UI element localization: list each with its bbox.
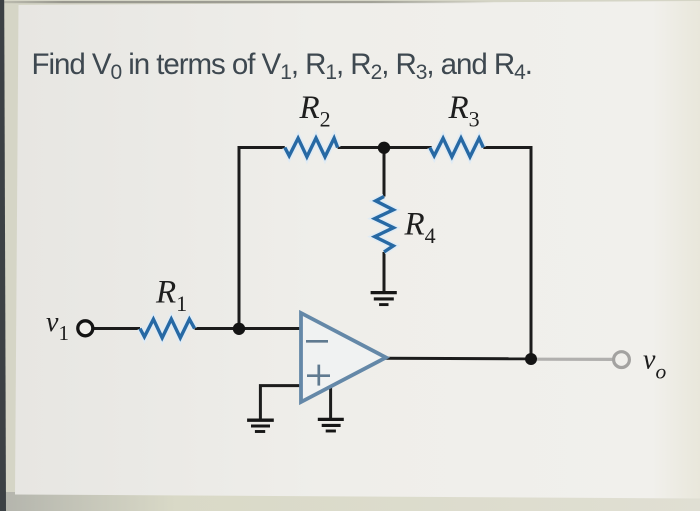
node A junction dot xyxy=(233,323,245,335)
wire: R1 to op-amp minus input (through node A) xyxy=(195,327,301,330)
resistor R2 xyxy=(285,138,338,157)
resistor R4 halo (vertical) xyxy=(375,197,394,253)
resistor R4 (vertical) xyxy=(375,197,394,253)
terminal vo open circle xyxy=(614,352,630,368)
ground G1 under R4 xyxy=(371,293,397,305)
ground G2 below-left of op-amp xyxy=(247,420,274,431)
wire: v1 lead to R1 xyxy=(93,327,141,330)
wire: left riser node A up to top-left corner xyxy=(239,148,285,329)
node C junction dot xyxy=(525,353,537,365)
op-amp minus mark xyxy=(306,340,328,343)
wire: plus input left then down to ground G2 xyxy=(260,386,300,419)
resistor R3 xyxy=(430,138,484,157)
op-amp plus mark xyxy=(307,365,330,386)
wire: R4 bottom to ground G1 xyxy=(383,252,386,291)
bottom gray band xyxy=(0,492,700,511)
wire: below op-amp down to ground G3 xyxy=(329,387,332,419)
wire: op-amp output to node C xyxy=(385,357,531,361)
resistor R3 halo xyxy=(430,138,484,157)
node B junction dot xyxy=(378,142,390,154)
resistor R2 halo xyxy=(285,138,338,157)
terminal v1 open circle xyxy=(78,321,93,336)
resistor R1 xyxy=(140,319,195,338)
resistor R1 halo xyxy=(140,319,195,338)
wire: R2 end to R3 start (through node B) xyxy=(338,146,432,149)
dark thin line top xyxy=(4,1,494,3)
wire: R3 end to top-right corner down to output node C xyxy=(483,148,531,359)
op-amp U1 triangle xyxy=(301,313,386,402)
ground G3 below op-amp xyxy=(318,419,344,431)
dark screen edge left xyxy=(0,0,6,511)
gray wire: node C to output terminal xyxy=(536,358,613,361)
wire: node B down to R4 xyxy=(383,148,386,197)
